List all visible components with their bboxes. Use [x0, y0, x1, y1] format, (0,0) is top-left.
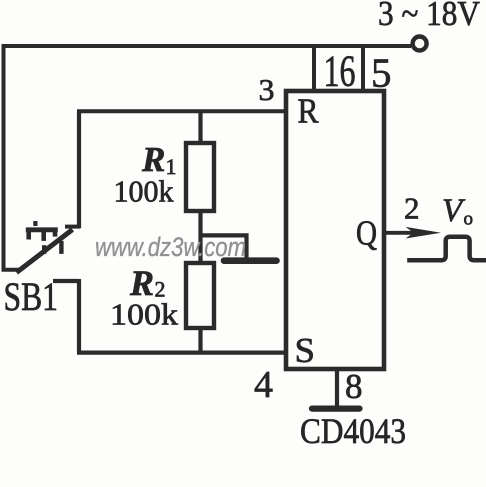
svg-text:3: 3: [259, 72, 275, 107]
label pin 5: [371, 49, 392, 95]
wire S input pin 4: [77, 351, 287, 355]
label pin 8: [345, 367, 363, 406]
svg-text:8: 8: [345, 367, 363, 406]
svg-text:Q: Q: [356, 214, 377, 253]
label supply voltage 3~18V: [378, 0, 480, 33]
label pin 2: [404, 191, 420, 226]
label pin 4: [254, 364, 273, 406]
svg-text:5: 5: [371, 49, 392, 95]
svg-text:16: 16: [324, 46, 356, 95]
label pin 3: [259, 72, 275, 107]
label R1: [141, 140, 177, 179]
svg-text:2: 2: [404, 191, 420, 226]
resistor R2: [186, 263, 214, 328]
power terminal: [413, 37, 427, 51]
wire top supply rail: [4, 44, 412, 48]
svg-text:o: o: [464, 209, 474, 230]
svg-text:R: R: [298, 91, 320, 130]
svg-text:SB1: SB1: [4, 274, 59, 319]
watermark www.dz3w.com: [95, 232, 246, 262]
wire pin 8: [335, 369, 339, 407]
wire R input pin 3: [77, 109, 287, 113]
svg-text:CD4043: CD4043: [300, 411, 406, 451]
resistor R1: [186, 143, 214, 211]
svg-text:4: 4: [254, 364, 273, 406]
pushbutton SB1: [17, 221, 81, 273]
wire R1 top lead: [198, 111, 202, 141]
svg-text:100k: 100k: [110, 296, 179, 331]
label R input: [298, 91, 320, 130]
label SB1: [4, 274, 59, 319]
Q output arrow pin 2: [386, 227, 441, 239]
label pin 16: [324, 46, 356, 95]
wire R1-R2 junction lead: [198, 211, 202, 263]
label S input: [295, 331, 316, 370]
svg-text:100k: 100k: [114, 174, 174, 209]
wire pin 16: [312, 46, 316, 91]
wire SB1 lower contact hook: [53, 279, 79, 352]
wire pin 5: [361, 46, 365, 91]
svg-text:www.dz3w.com: www.dz3w.com: [95, 232, 246, 262]
wire bottom-left jog to SB1 arm: [2, 268, 20, 272]
wire junction to touch plate: [201, 235, 247, 258]
label CD4043: [300, 411, 406, 451]
wire left rail: [2, 44, 6, 271]
output waveform Vo: [407, 237, 486, 261]
svg-text:3 ~ 18V: 3 ~ 18V: [378, 0, 480, 33]
label R1 value 100k: [114, 174, 174, 209]
wire R2 bottom lead: [198, 328, 202, 352]
label Vo: [442, 193, 473, 230]
label Q output: [356, 214, 377, 253]
svg-text:S: S: [295, 331, 316, 370]
wire SB1 top contact up to R input: [77, 113, 81, 228]
svg-text:V: V: [442, 193, 466, 229]
ground: [312, 406, 360, 412]
IC U1 CD4043 body: [286, 91, 384, 369]
label R2 value 100k: [110, 296, 179, 331]
label R2: [129, 263, 166, 303]
touch plate electrode: [224, 257, 277, 264]
